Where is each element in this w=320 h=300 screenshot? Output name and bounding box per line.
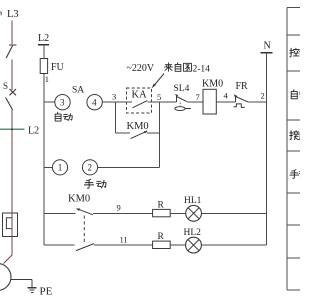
- svg-text:1: 1: [58, 163, 63, 173]
- FR heater hook: [234, 104, 245, 108]
- svg-text:SA: SA: [72, 86, 84, 96]
- wire SL4 to coil: [187, 101, 203, 103]
- SA terminal 3: [55, 95, 70, 110]
- svg-text:FU: FU: [51, 62, 65, 73]
- svg-text:7: 7: [196, 92, 200, 102]
- wire HL2 to N: [201, 244, 266, 246]
- wire 11: [94, 244, 153, 246]
- KM0 branch right wire: [147, 132, 160, 134]
- wire rail to SA terminal 1: [44, 166, 52, 168]
- wire rail to KM0 aux2: [44, 244, 75, 246]
- SL4 float tail: [185, 107, 191, 109]
- heater internal wire: [11, 213, 13, 237]
- wire R1 to HL1: [170, 212, 186, 214]
- svg-text:S: S: [3, 81, 8, 91]
- svg-text:HL2: HL2: [184, 228, 202, 238]
- table border: [286, 8, 288, 291]
- wire to motor: [4, 237, 13, 264]
- breaker S x-mark: [10, 89, 17, 95]
- svg-text:N: N: [264, 41, 271, 52]
- label 来自图2-14: [164, 63, 172, 71]
- svg-text:HL1: HL1: [184, 196, 202, 206]
- table label 手动: [290, 170, 299, 179]
- KM0 branch left wire: [116, 132, 131, 134]
- table row line 2: [287, 70, 300, 72]
- wire KA to node 5: [147, 101, 159, 103]
- svg-text:R: R: [158, 201, 165, 211]
- node 3 branch wire: [115, 102, 117, 133]
- svg-text:4: 4: [224, 91, 229, 101]
- svg-text:11: 11: [120, 234, 128, 244]
- wire HL1 to N: [202, 212, 267, 214]
- wire SA4 to node 3: [102, 101, 126, 103]
- svg-text:L2: L2: [38, 33, 49, 44]
- svg-text:KM0: KM0: [202, 79, 223, 90]
- resistor R1: [153, 209, 171, 216]
- table row line 4: [287, 150, 300, 152]
- wire left rail: [43, 45, 45, 245]
- table row line 3: [287, 119, 300, 121]
- disconnect switch QS tick: [9, 44, 17, 46]
- KM0 contact blade: [131, 131, 147, 138]
- SA terminal 4: [87, 95, 102, 110]
- svg-text:9: 9: [117, 203, 121, 213]
- KM0 aux1 arrow: [76, 208, 80, 211]
- L2 terminal bar: [38, 44, 49, 46]
- table label 接触: [290, 131, 299, 140]
- wire rail to SA terminal 3: [44, 101, 55, 103]
- svg-text:L2: L2: [28, 126, 39, 137]
- svg-text:5: 5: [157, 92, 161, 102]
- KA contact blade: [133, 101, 148, 108]
- mechanical link dashes: [83, 216, 85, 243]
- ground PE symbol: [28, 280, 37, 293]
- svg-text:2: 2: [88, 163, 93, 173]
- svg-text:L3: L3: [7, 9, 19, 20]
- wire between switches: [11, 60, 13, 91]
- svg-text:~220V: ~220V: [127, 63, 155, 74]
- disconnect switch QS blade: [6, 46, 12, 59]
- thermal relay FR heater box: [3, 213, 18, 237]
- junction blob: [11, 128, 13, 130]
- motor earth wire: [11, 279, 32, 281]
- cropped character fragment at left edge: [0, 12, 1, 15]
- svg-text:PE: PE: [40, 286, 53, 298]
- SL4 blade: [177, 97, 187, 102]
- svg-text:3: 3: [112, 92, 116, 102]
- N terminal bar: [260, 52, 272, 54]
- wire L2 tap: [0, 128, 25, 130]
- table row line 5: [287, 192, 300, 194]
- breaker S blade: [6, 98, 13, 111]
- FR arrow tip: [234, 94, 238, 98]
- lamp HL2: [186, 237, 202, 253]
- wire N rail: [265, 53, 267, 245]
- svg-text:R: R: [158, 232, 165, 242]
- wire R2 to HL2: [170, 244, 185, 246]
- resistor R2: [153, 241, 171, 248]
- motor M: [0, 264, 11, 291]
- lamp HL1: [186, 205, 202, 221]
- wire 9: [93, 212, 153, 214]
- table label 控制: [290, 48, 299, 57]
- FR blade: [236, 97, 249, 103]
- relay KA dashed box: [127, 88, 152, 113]
- svg-text:M: M: [0, 273, 1, 283]
- FR contact bar: [235, 97, 237, 103]
- SA terminal 1: [52, 160, 67, 175]
- KM0 aux2 blade: [76, 244, 94, 251]
- label 自动: [55, 112, 61, 121]
- svg-text:KM0: KM0: [127, 121, 149, 132]
- node 5 branch wire: [159, 102, 161, 167]
- FR heater element: [6, 218, 12, 229]
- wire FR to N: [249, 101, 267, 103]
- svg-text:1: 1: [45, 74, 49, 84]
- svg-text:4: 4: [92, 98, 97, 108]
- SL4 float link: [179, 103, 181, 107]
- wire down to heater: [11, 110, 13, 213]
- svg-text:2-14: 2-14: [193, 64, 211, 74]
- KM0 aux1 blade: [77, 209, 93, 215]
- SA terminal 2: [82, 160, 97, 175]
- wire L3 down: [11, 21, 13, 45]
- svg-text:KM0: KM0: [68, 194, 90, 205]
- SL4 float: [175, 107, 185, 111]
- SL4 arrow tip: [175, 94, 178, 97]
- KM0 blade arrow: [144, 131, 148, 134]
- svg-text:KA: KA: [132, 90, 148, 101]
- SL4 pivot bar: [176, 95, 178, 102]
- leader arrow to KA: [153, 74, 164, 87]
- wire coil to FR: [216, 101, 235, 103]
- table row line 6: [287, 224, 300, 226]
- svg-text:FR: FR: [236, 81, 249, 92]
- wire node5 to SL4: [160, 101, 177, 103]
- table row line 7: [287, 257, 300, 259]
- KA contact fixed wire: [127, 101, 133, 103]
- label 手动: [84, 179, 93, 188]
- wire SA2 to node5 branch: [98, 166, 160, 168]
- contactor coil KM0: [203, 89, 216, 114]
- table label 自动: [291, 90, 297, 99]
- fuse FU: [40, 59, 47, 74]
- wire rail to KM0 aux1: [44, 212, 76, 214]
- table row line 1: [287, 34, 300, 36]
- svg-text:2: 2: [261, 91, 265, 101]
- svg-text:SL4: SL4: [174, 84, 190, 94]
- svg-text:3: 3: [60, 98, 65, 108]
